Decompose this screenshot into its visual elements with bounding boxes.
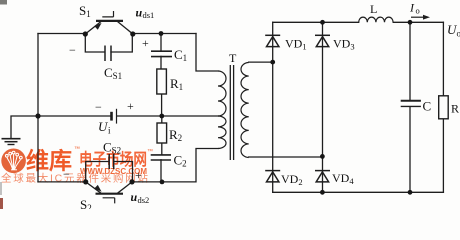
ground wire [11,116,38,139]
corner smudge bottom-left red [0,198,3,209]
diode VD4 [315,171,330,182]
ground [2,139,21,145]
junction secondary top / VD1 anode node [270,60,275,65]
diode column VD3/VD4 [322,22,324,192]
transformer core [230,65,233,160]
diode VD2 [265,171,280,182]
C1 branch lead [160,34,163,117]
secondary top wire [249,61,273,63]
svg-text:o: o [416,6,420,16]
svg-text:+: + [135,168,142,182]
middle wire right [117,115,218,117]
junction S1 drain node [83,31,88,36]
left rail [37,34,39,182]
right edge [442,22,444,192]
diode VD3 [315,35,330,46]
junction VD4 anode bottom rail node [320,190,325,195]
bottom rail [273,191,444,193]
svg-text:C: C [423,99,432,114]
R2 C2 branch lead [160,116,163,182]
svg-text:−: − [69,43,76,57]
diode VD1 [265,35,280,46]
svg-text:+: + [142,36,149,50]
junction C1 top node [159,31,164,36]
resistor R1 [157,69,167,94]
svg-text:−: − [95,100,102,114]
svg-text:−: − [63,167,70,181]
arrow Io [411,15,430,20]
junction S2 source node [129,179,134,184]
wire top mid [133,33,196,35]
transformer primary winding bottom [218,116,226,149]
capacitor CS1 [105,46,111,62]
svg-text:™: ™ [147,148,153,155]
load resistor R [439,96,449,119]
junction secondary bottom / VD4 node [320,154,325,159]
wire to primary top [196,34,218,72]
capacitor CS2 [109,154,114,169]
capacitor C1 [151,51,172,56]
bottom-left wire [38,181,86,183]
corner smudge top-left [0,0,7,5]
junction R1 R2 midpoint node [159,114,164,119]
battery Ui [112,109,117,124]
transformer primary winding top [218,71,226,116]
capacitor C2 [151,155,171,160]
svg-text:+: + [127,99,134,113]
wire top-left [38,33,85,35]
junction C bottom rail node [408,190,413,195]
transformer secondary winding [241,63,249,158]
junction S1 source node [130,31,135,36]
junction S2 drain node [83,179,88,184]
svg-text:o: o [457,29,460,39]
secondary bottom wire [249,156,323,158]
svg-text:u: u [131,190,138,204]
inductor L [359,17,393,22]
junction Ui negative / ground node [35,113,40,118]
junction L output node [408,20,413,25]
bottom mid wire [132,149,218,182]
middle wire left [38,115,111,117]
svg-text:R: R [451,102,459,116]
svg-text:L: L [370,2,377,16]
mosfet S2 [86,182,132,204]
svg-text:T: T [229,51,237,65]
junction VD3 cathode top rail node [320,20,325,25]
diode column VD1/VD2 [272,22,274,192]
resistor R2 [157,123,167,143]
CS1 loop [85,34,132,52]
output capacitor C [401,101,421,107]
watermark logo circle [1,149,26,174]
svg-text:ds2: ds2 [138,195,150,205]
top rail [273,21,444,23]
output C branch [409,22,411,192]
mosfet S1 [85,11,133,34]
svg-text:ds1: ds1 [143,10,155,20]
CS2 loop [86,162,133,182]
svg-text:u: u [136,6,143,20]
junction C2 bottom node [160,180,165,185]
